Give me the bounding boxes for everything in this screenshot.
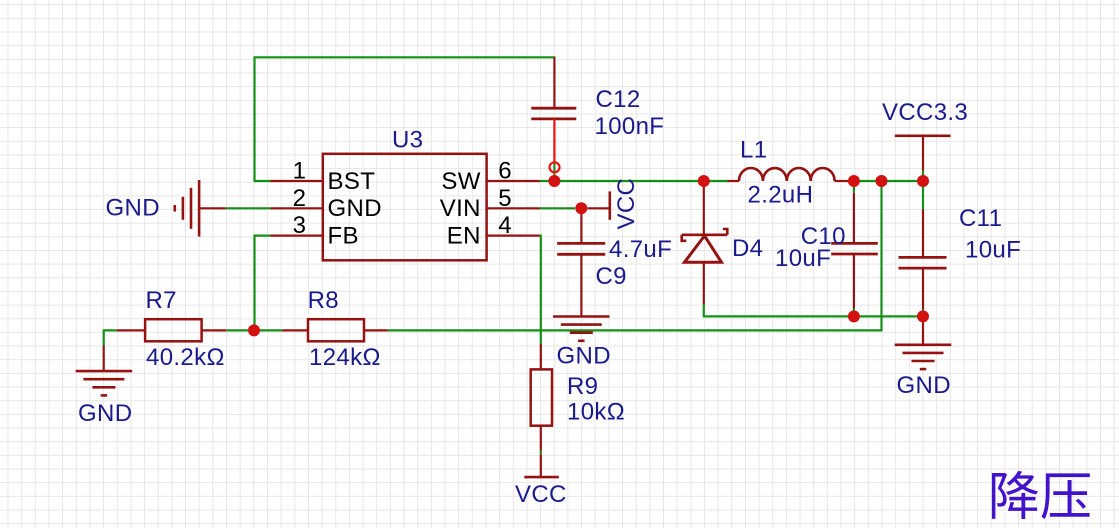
svg-text:R8: R8 <box>308 287 339 314</box>
svg-text:10kΩ: 10kΩ <box>567 399 625 426</box>
U3 pin 5 VIN <box>440 185 540 222</box>
svg-text:R7: R7 <box>146 287 177 314</box>
wire FB pin3 to divider <box>255 236 271 331</box>
wire R8 right feedback to output <box>388 181 882 330</box>
wire C11 top lead <box>922 209 924 257</box>
svg-text:6: 6 <box>498 158 512 185</box>
svg-text:EN: EN <box>447 222 481 249</box>
ground below R7 <box>76 371 133 395</box>
svg-text:D4: D4 <box>732 235 763 262</box>
diode D4 schottky <box>682 229 728 262</box>
op-amp U3 body <box>323 126 487 260</box>
wire C10 top stub <box>853 181 855 193</box>
ground below C11 <box>895 345 952 369</box>
svg-text:C12: C12 <box>596 86 641 113</box>
label R7 value <box>146 287 225 371</box>
svg-text:2.2uH: 2.2uH <box>748 181 814 208</box>
svg-text:VCC: VCC <box>515 481 567 508</box>
svg-text:GND: GND <box>106 195 160 222</box>
wire D4 anode to ground rail <box>704 304 923 316</box>
wire VIN pin5 to node <box>540 207 576 209</box>
junction R7-R8-FB <box>248 324 260 336</box>
label C11 value <box>959 205 1021 264</box>
svg-text:3: 3 <box>293 212 307 239</box>
wire junction to R8 left <box>254 329 283 331</box>
net label GND below C11 <box>897 372 951 399</box>
svg-text:10uF: 10uF <box>775 245 831 272</box>
wire R9 bottom lead <box>540 426 542 477</box>
net label GND below C9 <box>557 343 611 370</box>
wire C9 top lead <box>580 214 582 243</box>
svg-text:L1: L1 <box>740 137 767 164</box>
U3 pin 1 BST <box>271 158 376 195</box>
wire R8 left lead <box>283 329 309 331</box>
wire D4 anode lead <box>703 262 705 304</box>
wire C10 top lead <box>853 193 855 244</box>
wire ground lead below C11 <box>922 316 924 344</box>
ground below C9 <box>553 317 610 341</box>
junction feedback top <box>876 175 888 187</box>
svg-text:SW: SW <box>441 168 480 195</box>
U3 pin 3 FB <box>271 212 359 249</box>
capacitor C11 <box>899 257 947 268</box>
wire R7 left to ground <box>104 330 117 345</box>
wire R7 left lead <box>117 329 145 331</box>
wire C10 bottom lead <box>853 254 855 308</box>
wire D4 cathode lead <box>703 181 705 235</box>
svg-text:U3: U3 <box>392 126 423 153</box>
wire C9 bottom lead <box>580 254 582 316</box>
svg-text:2: 2 <box>293 185 307 212</box>
junction C11-VCC3.3 top <box>917 175 929 187</box>
svg-text:GND: GND <box>557 343 611 370</box>
svg-text:BST: BST <box>328 168 376 195</box>
junction C11 bottom <box>917 310 929 322</box>
label C12 value <box>595 86 665 140</box>
svg-text:FB: FB <box>328 222 359 249</box>
wire EN pin4 down to R9 <box>540 236 541 344</box>
svg-text:R9: R9 <box>567 373 598 400</box>
svg-text:GND: GND <box>78 400 132 427</box>
svg-text:4.7uF: 4.7uF <box>609 236 672 263</box>
wire C11 bottom stub <box>922 309 924 316</box>
net label GND left <box>106 195 160 222</box>
wire GND to pin2 <box>226 207 271 209</box>
wire L1 to VCC3.3 node <box>849 180 924 182</box>
junction D4 top <box>698 175 710 187</box>
resistor R7 <box>145 319 202 341</box>
capacitor C9 <box>557 243 605 254</box>
svg-text:1: 1 <box>293 158 307 185</box>
junction VIN node <box>575 202 587 214</box>
svg-text:100nF: 100nF <box>595 113 665 140</box>
U3 pin 4 EN <box>447 212 540 249</box>
U3 pin 2 GND <box>271 185 382 222</box>
svg-text:40.2kΩ: 40.2kΩ <box>146 344 225 371</box>
wire R9 lower segment <box>540 451 542 454</box>
junction SW-C12 node <box>548 175 560 187</box>
wire BST top loop <box>255 57 556 181</box>
capacitor C10 <box>831 243 878 254</box>
ground GND left symbol <box>175 180 199 237</box>
wire C12 node stub <box>553 160 555 181</box>
svg-text:C11: C11 <box>959 205 1002 232</box>
svg-text:124kΩ: 124kΩ <box>309 344 381 371</box>
label R9 value <box>567 373 625 426</box>
U3 pin 6 SW <box>441 158 539 195</box>
net label GND below R7 <box>78 400 132 427</box>
power VCC below R9 <box>515 477 567 508</box>
wire SW node to L1 <box>554 180 727 182</box>
svg-text:VCC3.3: VCC3.3 <box>882 99 968 126</box>
wire VCC3.3 node stub <box>922 171 924 181</box>
wire R8 right lead <box>364 329 388 331</box>
junction C10 bottom <box>848 310 860 322</box>
svg-text:VIN: VIN <box>440 195 481 222</box>
label C10 value <box>775 223 846 272</box>
svg-text:10uF: 10uF <box>965 236 1021 263</box>
svg-text:GND: GND <box>328 195 382 222</box>
wire C10 bottom stub <box>853 308 855 316</box>
ground GND left lead <box>199 207 226 209</box>
svg-text:4: 4 <box>498 212 512 239</box>
inductor L1 <box>728 168 849 181</box>
wire C11 top stub <box>922 181 924 209</box>
power VCC3.3 <box>882 99 968 171</box>
wire C12 top lead <box>553 57 555 108</box>
resistor R8 <box>308 319 364 341</box>
svg-text:VCC: VCC <box>613 178 640 230</box>
wire C11 bottom lead <box>922 268 924 309</box>
label C9 value <box>596 236 673 290</box>
wire SW pin6 to node <box>540 180 555 182</box>
junction C10 top <box>848 175 860 187</box>
label D4 <box>732 235 763 262</box>
capacitor C12 <box>531 108 576 119</box>
ground below R7 lead <box>103 346 105 372</box>
wire R9 top lead <box>540 344 542 369</box>
label R8 value <box>308 287 381 371</box>
wire R7 right to junction <box>226 329 254 331</box>
title text 降压 (buck) <box>992 471 1090 519</box>
capacitor C12 bottom lead (unconnected marker) <box>550 119 560 172</box>
svg-text:5: 5 <box>498 185 512 212</box>
resistor R9 <box>531 369 552 425</box>
svg-text:C9: C9 <box>596 263 627 290</box>
svg-text:GND: GND <box>897 372 951 399</box>
wire R7 right lead <box>202 329 227 331</box>
power VCC at VIN <box>588 178 640 230</box>
label L1 value <box>740 137 813 209</box>
